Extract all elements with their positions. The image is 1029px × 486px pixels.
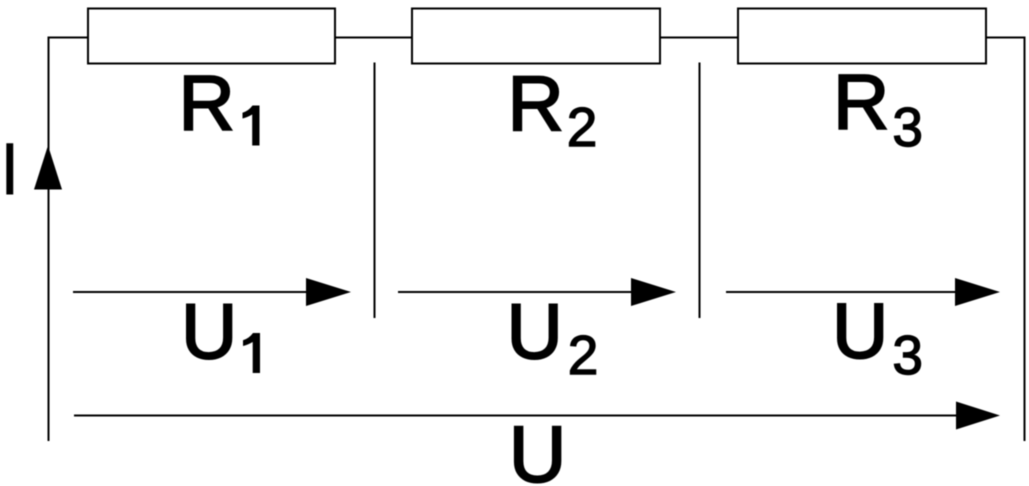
svg-text:2: 2 <box>568 324 599 386</box>
svg-text:U: U <box>832 287 888 375</box>
svg-text:U: U <box>509 410 567 486</box>
svg-text:3: 3 <box>892 96 923 158</box>
svg-text:R: R <box>833 58 889 146</box>
svg-text:2: 2 <box>567 96 598 158</box>
svg-text:I: I <box>0 128 20 211</box>
svg-text:R: R <box>508 60 564 148</box>
svg-text:U: U <box>181 287 237 375</box>
svg-text:U: U <box>507 287 563 375</box>
svg-text:R: R <box>179 59 235 147</box>
svg-text:3: 3 <box>892 324 923 386</box>
